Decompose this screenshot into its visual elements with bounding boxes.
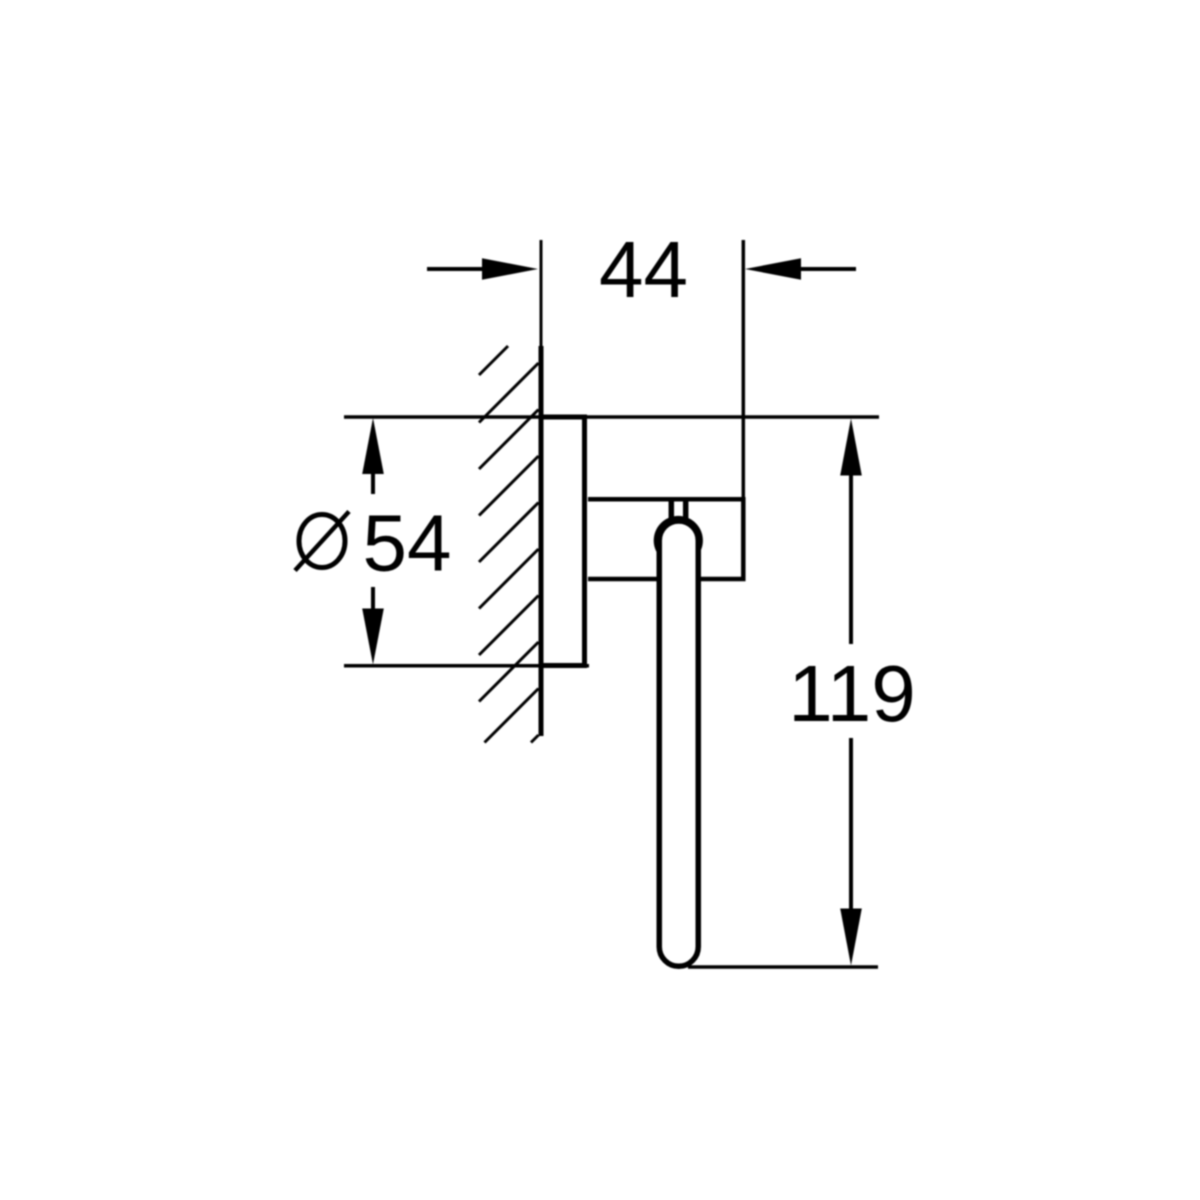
svg-text:119: 119 [788, 649, 916, 738]
svg-text:44: 44 [599, 225, 688, 314]
svg-text:54: 54 [363, 499, 452, 588]
